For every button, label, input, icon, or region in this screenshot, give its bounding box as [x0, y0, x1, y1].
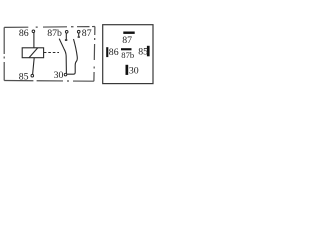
- svg-text:86: 86: [19, 28, 29, 39]
- svg-text:85: 85: [138, 47, 148, 58]
- svg-text:30: 30: [54, 70, 64, 81]
- svg-text:86: 86: [109, 47, 119, 58]
- svg-text:87: 87: [82, 28, 92, 39]
- svg-text:87: 87: [122, 35, 132, 46]
- svg-text:87b: 87b: [121, 50, 134, 60]
- svg-text:85: 85: [19, 71, 29, 82]
- svg-text:87b: 87b: [47, 28, 62, 39]
- svg-text:30: 30: [129, 66, 139, 77]
